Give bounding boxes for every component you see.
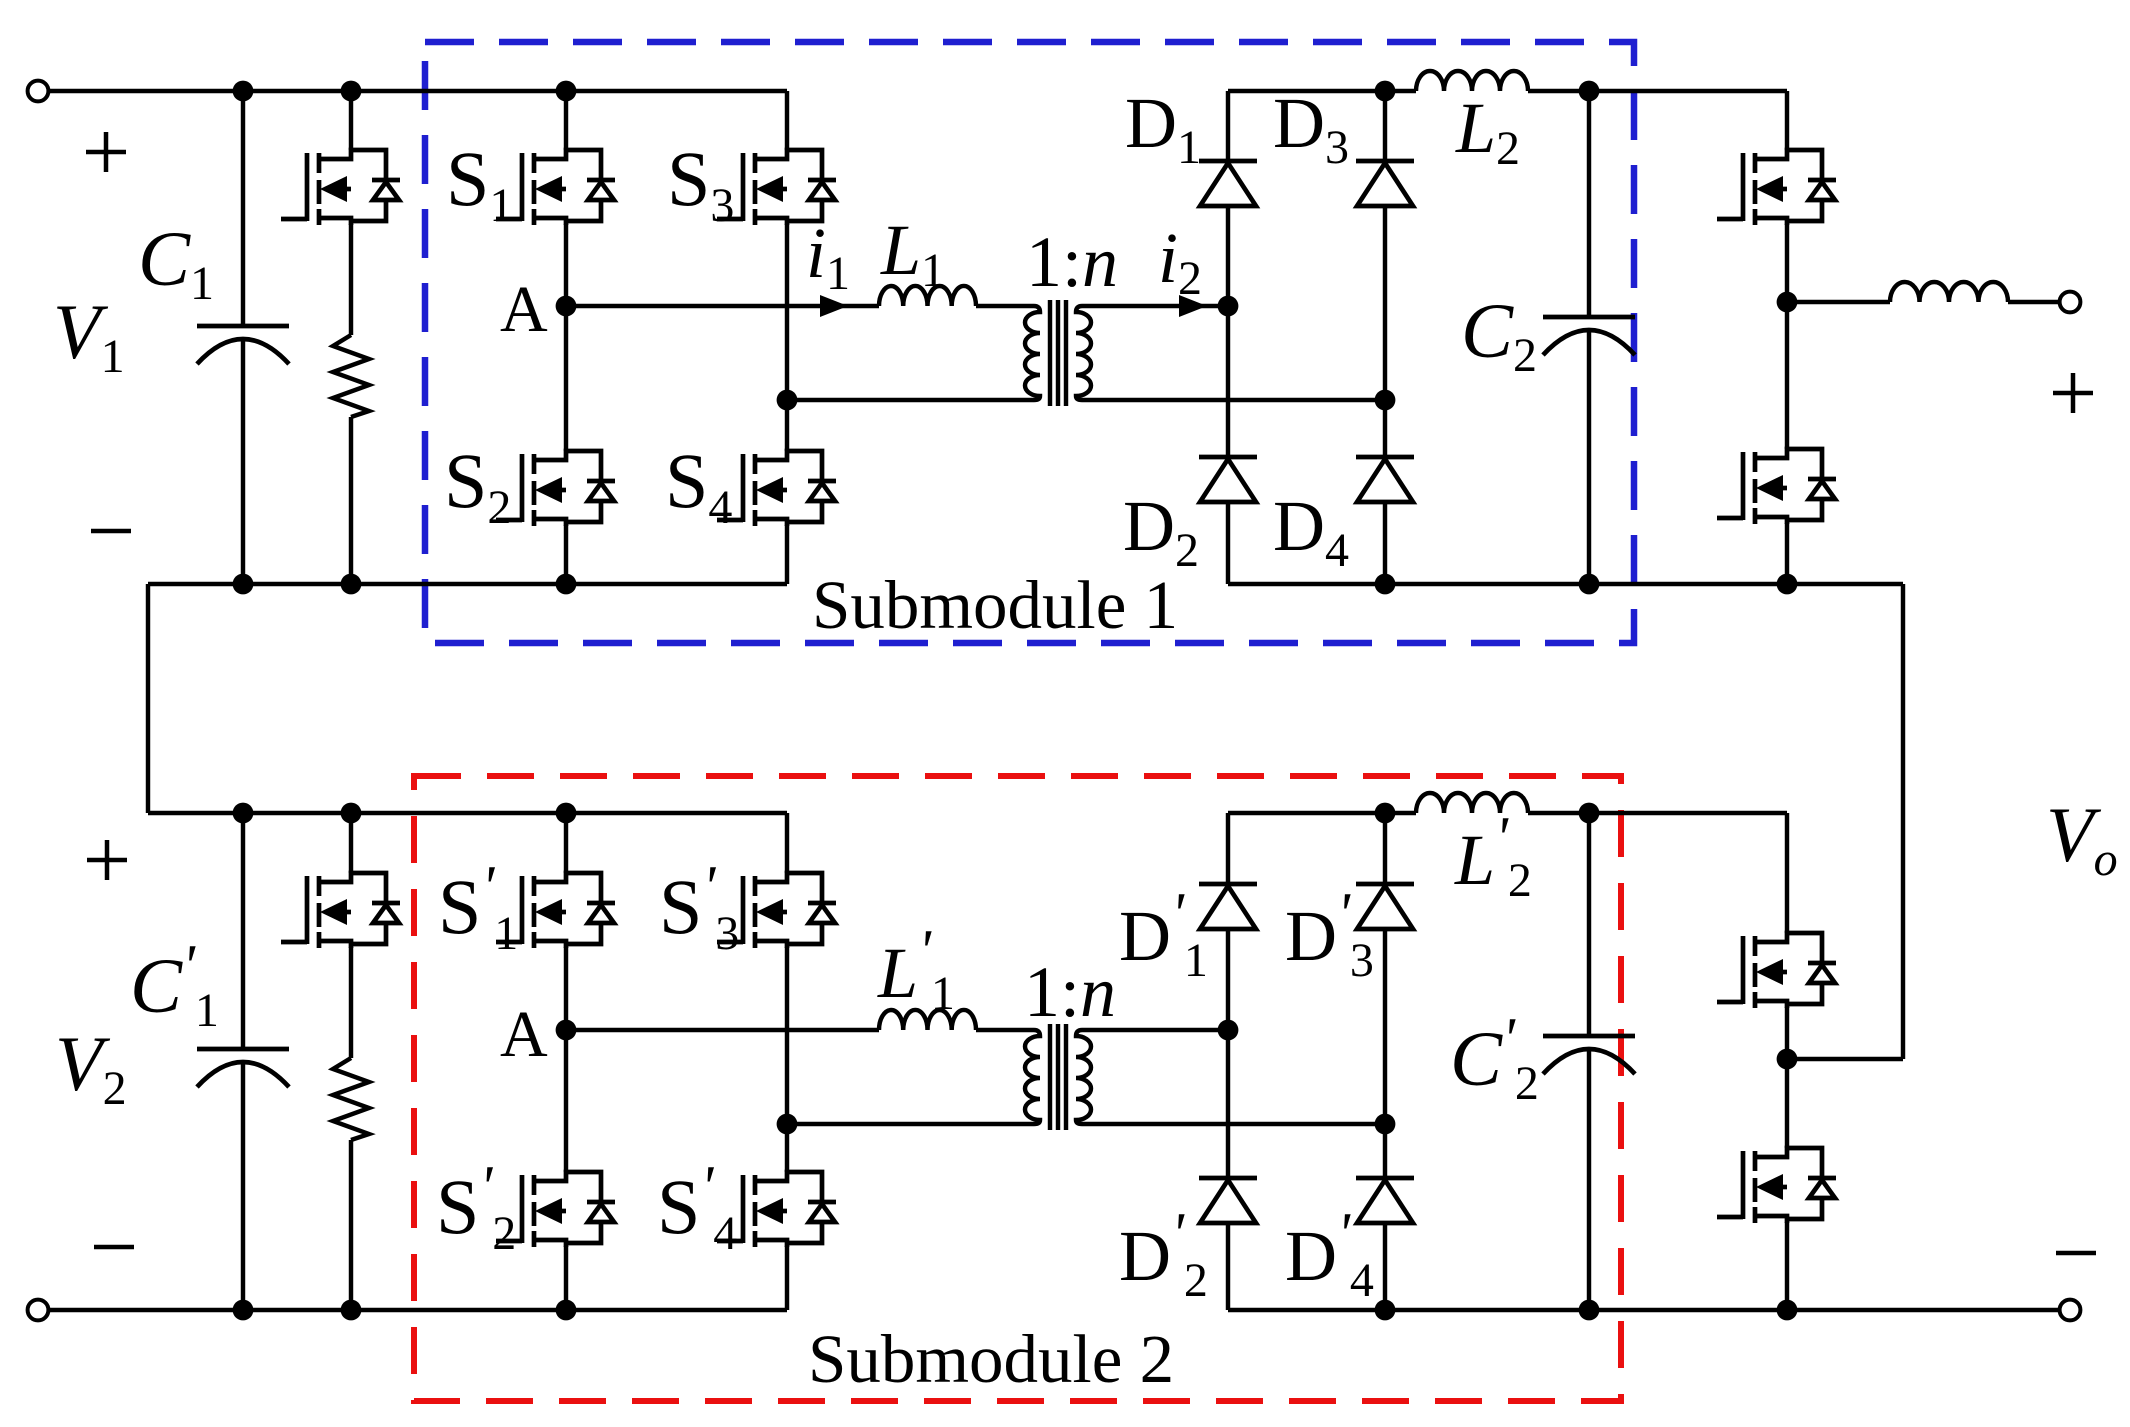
wire: balancing branch 1 drain stub [349,91,353,150]
Submodule 2 dashed boundary box [414,776,1621,1401]
wire: series link between input rails [146,584,150,813]
wire: series stack link vertical [1901,584,1905,1059]
plus sign output [2053,373,2093,413]
wire: S'1-S'2 leg top stub [564,813,568,873]
wire: D4 bottom stub [1383,502,1387,584]
terminal input - [28,1300,49,1321]
diode D'1 [1199,884,1257,929]
plus sign V1 [86,132,126,172]
junction dot S'3-S'4 midpoint [777,1114,798,1135]
wire: D2 bottom stub [1226,502,1230,584]
transistor right half-bridge 1 lower [1717,449,1836,524]
diode D1 [1199,161,1257,206]
junction dots rectifier 2 top rail [1375,803,1396,824]
wire: S'3-S'4 leg middle [785,947,789,1172]
wire: D'2 bottom stub [1226,1223,1230,1310]
junction dots rectifier 1 top rail [1375,81,1396,102]
junction dot secondary' to D'3-D'4 [1375,1114,1396,1135]
wire: output inductor to + terminal [2008,300,2060,304]
inductor L2 [1416,71,1528,91]
diode D3 [1356,161,1414,206]
wire: V1 bottom rail [148,582,787,586]
transformer T2 secondary winding [1076,1030,1385,1124]
diode D2 [1199,457,1257,502]
junction dot secondary to D3-D4 [1375,390,1396,411]
wire: balancing branch 2 middle [349,947,353,1058]
minus sign output [2056,1251,2096,1256]
minus sign V2 [94,1245,134,1250]
current arrow i1 [820,295,848,317]
wire: rectifier top rail to L2 [1228,89,1416,93]
wire: stack link to half-bridge 2 midpoint [1787,1057,1903,1061]
transistor balancing MOSFET 1 [281,150,400,225]
junction dot i2 into D1-D2 [1218,296,1239,317]
wire: V2 top rail [148,811,787,815]
current arrow i2 [1179,295,1207,317]
wire: S3-S4 leg top stub [785,91,789,150]
wire: D1-D2 column top [1226,91,1230,161]
resistor balancing 1 [333,335,369,417]
wire: rectifier bottom rail [1228,582,1903,586]
diode D'3 [1356,884,1414,929]
wire: right half-bridge 2 middle [1785,1007,1789,1148]
wire: node A' to L'1 [566,1028,879,1032]
wire: rectifier 2 bottom rail to - terminal [1228,1308,2060,1312]
wire: node A to L1 [566,304,879,308]
wire: C1 column lower [241,339,245,584]
junction dot half-bridge 1 midpoint [1777,292,1798,313]
svg-text:1:n: 1:n [1024,952,1116,1032]
svg-text:Submodule 2: Submodule 2 [808,1321,1174,1397]
junction dots rectifier 1 bottom rail [1375,574,1396,595]
wire: D'4 bottom stub [1383,1223,1387,1310]
transistor S2 [496,451,615,526]
Submodule 1 dashed boundary box [425,42,1634,643]
transistor right half-bridge 2 lower [1717,1148,1836,1223]
terminal output - [2060,1300,2081,1321]
wire: S'2 source stub [564,1246,568,1310]
terminal output + [2060,292,2081,313]
wire: right half-bridge 2 bottom stub [1785,1222,1789,1310]
capacitor C2 [1543,317,1635,355]
wire: S1-S2 leg top stub [564,91,568,150]
wire: balancing branch 1 lower [349,417,353,584]
wire: right half-bridge 1 bottom stub [1785,523,1789,584]
transformer T2 primary winding [787,1030,1040,1124]
wire: D3-D4 column middle [1383,206,1387,457]
wire: S2 source stub [564,525,568,584]
svg-text:1:n: 1:n [1026,222,1118,302]
svg-text:Submodule 1: Submodule 1 [812,567,1178,643]
junction dots module 1 top rail [233,81,254,102]
transistor right half-bridge 1 upper [1717,150,1836,225]
wire: C2 column lower [1587,330,1591,584]
junction dot half-bridge 2 midpoint [1777,1049,1798,1070]
wire: right half-bridge 1 middle [1785,224,1789,449]
transistor right half-bridge 2 upper [1717,933,1836,1008]
wire: S4 source stub [785,525,789,584]
transformer T1 secondary winding [1076,306,1385,400]
wire: S'4 source stub [785,1246,789,1310]
junction dot secondary' to D'1-D'2 [1218,1020,1239,1041]
svg-text:A: A [500,273,548,346]
wire: midpoint to output inductor [1787,300,1890,304]
wire: D'3-D'4 column middle [1383,929,1387,1178]
wire: V2 bottom rail [48,1308,787,1312]
wire: S1-S2 leg middle (node A) [564,224,568,451]
diode D4 [1356,457,1414,502]
wire: right half-bridge 1 top stub [1785,91,1789,150]
junction dot S3-S4 midpoint [777,390,798,411]
transformer T1 core [1050,300,1066,406]
terminal input + [28,81,49,102]
wire: S'1-S'2 leg middle (node A') [564,947,568,1172]
junction dot node A' [556,1020,577,1041]
wire: C1 column upper [241,91,245,326]
inductor L'2 [1416,793,1528,813]
transformer T2 core [1050,1024,1066,1130]
junction dots module 1 bottom rail [233,574,254,595]
wire: balancing branch 2 lower [349,1140,353,1310]
diode D'2 [1199,1178,1257,1223]
transistor S'4 [717,1172,836,1247]
transistor S'2 [496,1172,615,1247]
junction dot node A [556,296,577,317]
wire: right half-bridge 2 top stub [1785,813,1789,933]
wire: D1-D2 column middle [1226,206,1230,457]
wire: D'3-D'4 column top [1383,813,1387,884]
inductor L'1 [879,1010,976,1030]
wire: C1' column upper [241,813,245,1049]
junction dots module 2 top rail [233,803,254,824]
wire: balancing branch 2 drain stub [349,813,353,873]
transistor S4 [717,451,836,526]
inductor output filter [1890,282,2008,302]
wire: L2 to right leg [1528,89,1787,93]
capacitor C'1 [197,1049,289,1087]
wire: C1' column lower [241,1062,245,1310]
wire: S3-S4 leg middle [785,224,789,451]
wire: S'3-S'4 leg top stub [785,813,789,873]
wire: D'1-D'2 column top [1226,813,1230,884]
resistor balancing 2 [333,1058,369,1140]
transistor S'1 [496,873,615,948]
transistor S1 [496,150,615,225]
wire: D3-D4 column top [1383,91,1387,161]
wire: C2' column lower [1587,1049,1591,1310]
transistor balancing MOSFET 2 [281,873,400,948]
inductor L1 [879,286,976,306]
capacitor C'2 [1543,1036,1635,1074]
capacitor C1 [197,326,289,364]
wire: rectifier 2 top rail to L'2 [1228,811,1416,815]
minus sign V1 [91,529,131,534]
plus sign V2 [87,840,127,880]
wire: C2 column upper [1587,91,1591,317]
junction dots rectifier 2 bottom rail [1375,1300,1396,1321]
wire: C2' column upper [1587,813,1591,1036]
transistor S3 [717,150,836,225]
wire: balancing branch 1 middle [349,224,353,335]
wire: top input rail [48,89,787,93]
svg-text:A: A [500,998,548,1071]
wire: D'1-D'2 column middle [1226,929,1230,1178]
transformer T1 primary winding [787,306,1040,400]
diode D'4 [1356,1178,1414,1223]
transistor S'3 [717,873,836,948]
junction dots module 2 bottom rail [233,1300,254,1321]
wire: L'2 to right leg 2 [1528,811,1787,815]
